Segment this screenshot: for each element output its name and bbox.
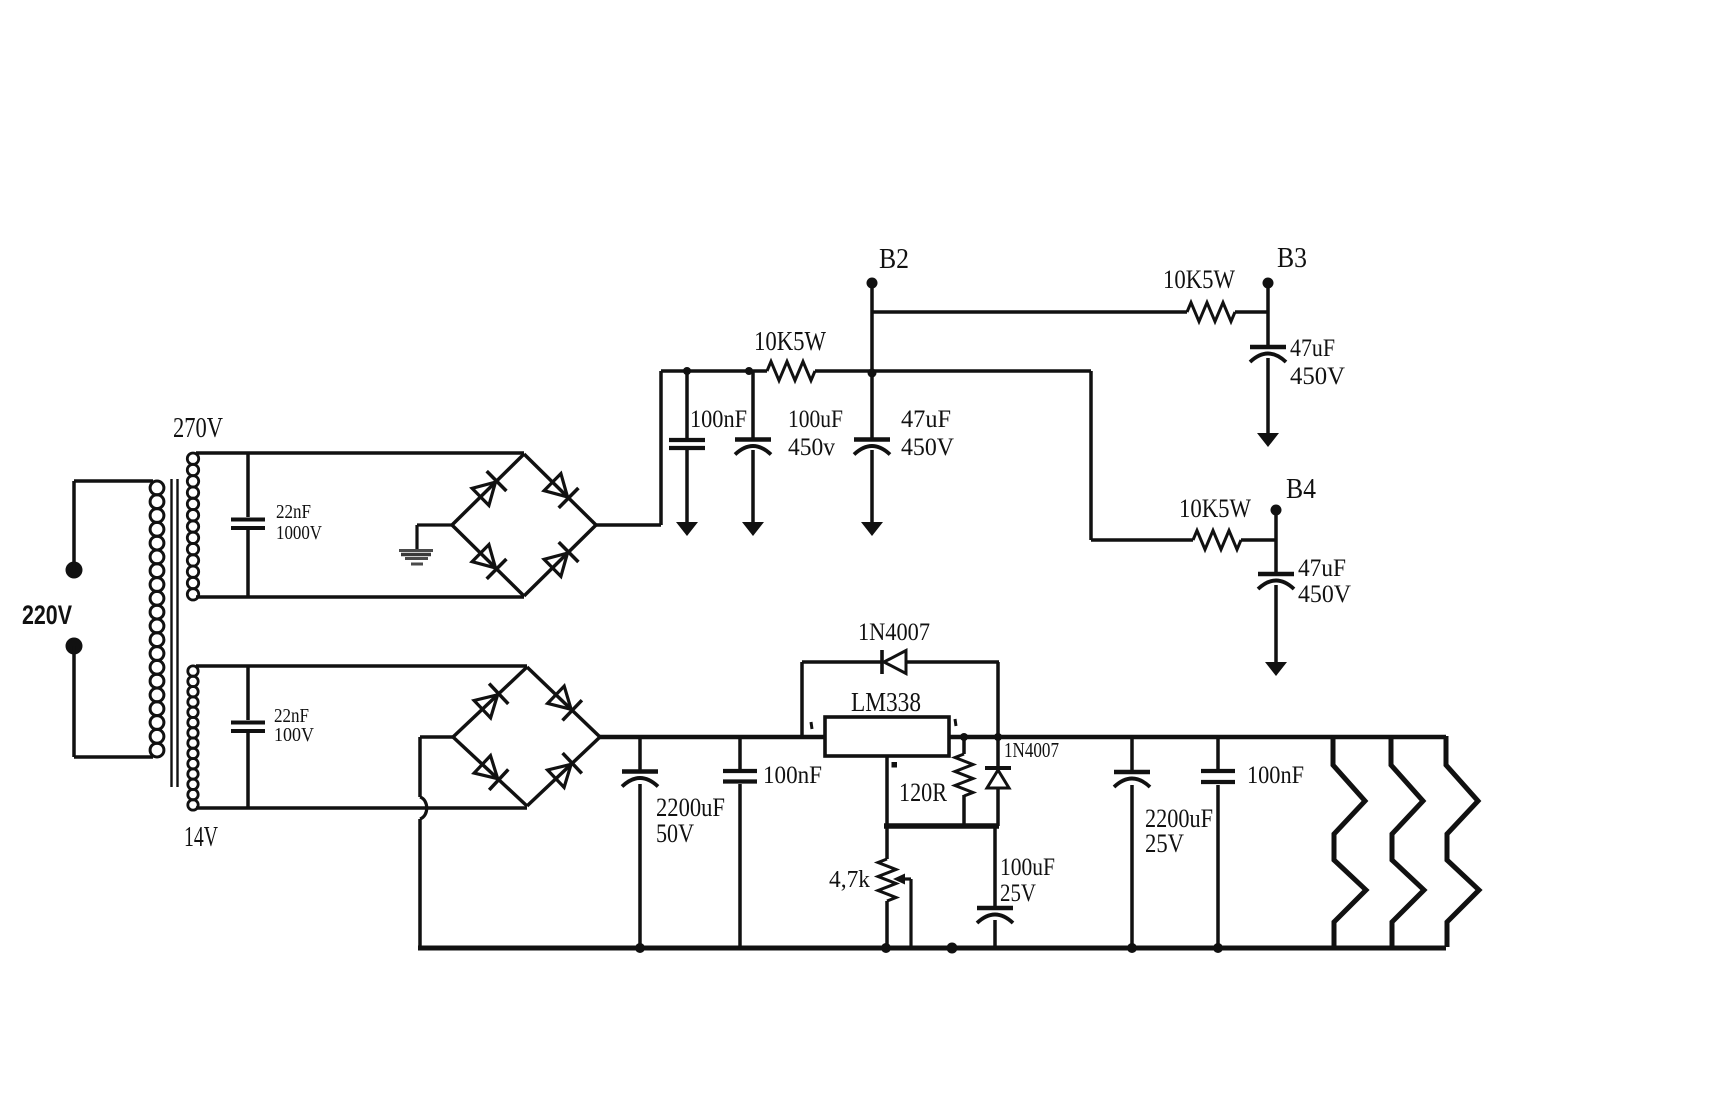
diode D7 [474,756,508,790]
svg-text:100nF: 100nF [690,406,747,433]
capacitor 47uF 450V (B4) [1258,510,1294,676]
heater load 3 [1446,736,1479,947]
junction dots on HT rail [683,367,877,378]
wire 14V secondary bottom [196,806,527,810]
label 2200uF 25V [1145,804,1213,858]
capacitor 100nF (input) [723,737,757,948]
svg-text:22nF: 22nF [276,501,311,523]
wire primary top [74,479,153,483]
svg-text:LM338: LM338 [851,687,921,717]
svg-text:270V: 270V [173,412,223,444]
diode D6 [548,686,582,720]
label 47uF 450V (B3) [1290,335,1345,390]
wire bridge arm D5 [453,667,527,737]
wire B2 to R2 [872,310,1187,314]
label 220V [22,600,72,630]
svg-text:450V: 450V [1298,581,1351,608]
wire bridge1 output [596,371,661,525]
label 100nF (output) [1247,762,1304,789]
node B2 [867,244,910,289]
wire bridge arm D3 [452,525,524,596]
diode D5 [474,684,508,718]
label 47uF 450V (B4) [1298,555,1351,608]
potentiometer 4,7k [878,826,911,953]
svg-text:100uF: 100uF [788,406,843,433]
svg-text:450v: 450v [788,434,835,461]
resistor 10K5W R2 [1187,303,1235,322]
resistor 10K5W R1 [767,362,815,381]
svg-text:100nF: 100nF [1247,762,1304,789]
svg-text:47uF: 47uF [1290,335,1335,362]
wire bridge arm D4 [524,525,596,596]
diode D4 [544,542,578,576]
diode D3 [472,545,506,579]
label 2200uF 50V [656,793,725,848]
resistor 10K5W R3 [1193,531,1241,550]
svg-text:450V: 450V [1290,363,1345,390]
svg-text:2200uF: 2200uF [656,793,725,822]
regulator U1 LM338 [811,717,956,768]
capacitor 100nF film [669,371,705,536]
wire bridge arm D7 [453,737,527,806]
node B4 [1271,474,1317,516]
svg-text:47uF: 47uF [901,406,951,433]
diode D1 [472,471,506,505]
diode D8 [548,753,582,787]
transformer TR1 secondary 270V winding [187,453,198,600]
wire bridge1 minus to ground [417,525,452,551]
label 100uF 25V [1000,854,1055,907]
ground rail bottom [418,946,1446,951]
capacitor 22nF 1000V [231,453,265,597]
svg-text:10K5W: 10K5W [1163,265,1235,294]
capacitor 2200uF 25V [1114,737,1150,953]
svg-text:100uF: 100uF [1000,854,1055,881]
diode 1N4007 D10 (adj protection) [985,662,1011,826]
resistor 120R [955,733,973,826]
label 1N4007 D9 [858,619,930,646]
svg-text:10K5W: 10K5W [1179,494,1251,523]
label 14V [184,821,218,853]
node B3 [1263,243,1308,289]
svg-text:25V: 25V [1145,829,1184,858]
capacitor 47uF 450V (B3) [1250,283,1286,447]
transformer TR1 core [172,479,178,787]
capacitor 47uF 450V (B2) [854,288,890,536]
capacitor 2200uF 50V [622,737,658,953]
capacitor 100nF (output) [1201,737,1235,953]
capacitor 22nF 100V [231,666,265,808]
wire DC output rail [600,735,1446,740]
label 100nF (input) [763,762,822,789]
wire R2 to B3 [1235,310,1268,314]
wire bridge arm D6 [527,667,600,737]
node 220V input terminal top [66,481,83,579]
label 4,7k [829,867,870,893]
svg-text:220V: 220V [22,600,72,630]
label 22nF 1000V [276,501,322,544]
wire ADJ node bar [884,823,999,829]
svg-text:120R: 120R [899,778,948,807]
capacitor 100uF 25V [947,826,1014,954]
diode D2 [544,474,578,508]
wire 270V secondary bottom [196,595,524,599]
svg-text:10K5W: 10K5W [754,326,826,356]
label 22nF 100V [274,705,314,746]
transformer TR1 primary winding [150,481,164,757]
wire bridge arm D1 [452,454,524,525]
svg-text:25V: 25V [1000,880,1036,907]
transformer TR1 secondary 14V winding [188,666,198,810]
svg-text:B3: B3 [1277,243,1307,274]
svg-text:4,7k: 4,7k [829,867,870,893]
heater load 2 [1391,736,1424,947]
label 120R [899,778,948,807]
svg-text:1N4007: 1N4007 [858,619,930,646]
label 10K5W R3 [1179,494,1251,523]
wire bridge2 minus down [420,737,453,948]
wire 270V secondary top [196,451,524,455]
svg-text:450V: 450V [901,434,954,461]
wire bridge arm D2 [524,454,596,525]
wire ADJ pin [885,756,889,826]
svg-text:1N4007: 1N4007 [1004,738,1059,762]
heater load 1 [1333,736,1366,947]
label 100uF 450v [788,406,843,461]
svg-text:50V: 50V [656,819,694,848]
wire HT filter rail [661,369,1091,373]
label 270V [173,412,223,444]
svg-text:100V: 100V [274,724,314,746]
svg-text:14V: 14V [184,821,218,853]
label LM338 [851,687,921,717]
wire 14V secondary top [196,664,527,668]
label 1N4007 D10 [1004,738,1059,762]
label 47uF 450V (B2) [901,406,954,461]
svg-text:B4: B4 [1286,474,1316,505]
label 10K5W R2 [1163,265,1235,294]
wire R3 to B4 [1241,538,1276,542]
wire primary bottom [74,755,153,759]
node 220V input terminal bottom [66,638,83,758]
diode 1N4007 D9 (protection) [802,650,999,737]
ground chassis symbol [399,551,433,565]
svg-text:B2: B2 [879,244,909,275]
capacitor 100uF 450v [735,371,771,536]
svg-text:100nF: 100nF [763,762,822,789]
svg-text:1000V: 1000V [276,522,322,544]
svg-text:47uF: 47uF [1298,555,1346,582]
wire bridge arm D8 [527,737,600,806]
label 100nF [690,406,747,433]
label 10K5W R1 [754,326,826,356]
wire rail to R3 [1091,371,1193,540]
